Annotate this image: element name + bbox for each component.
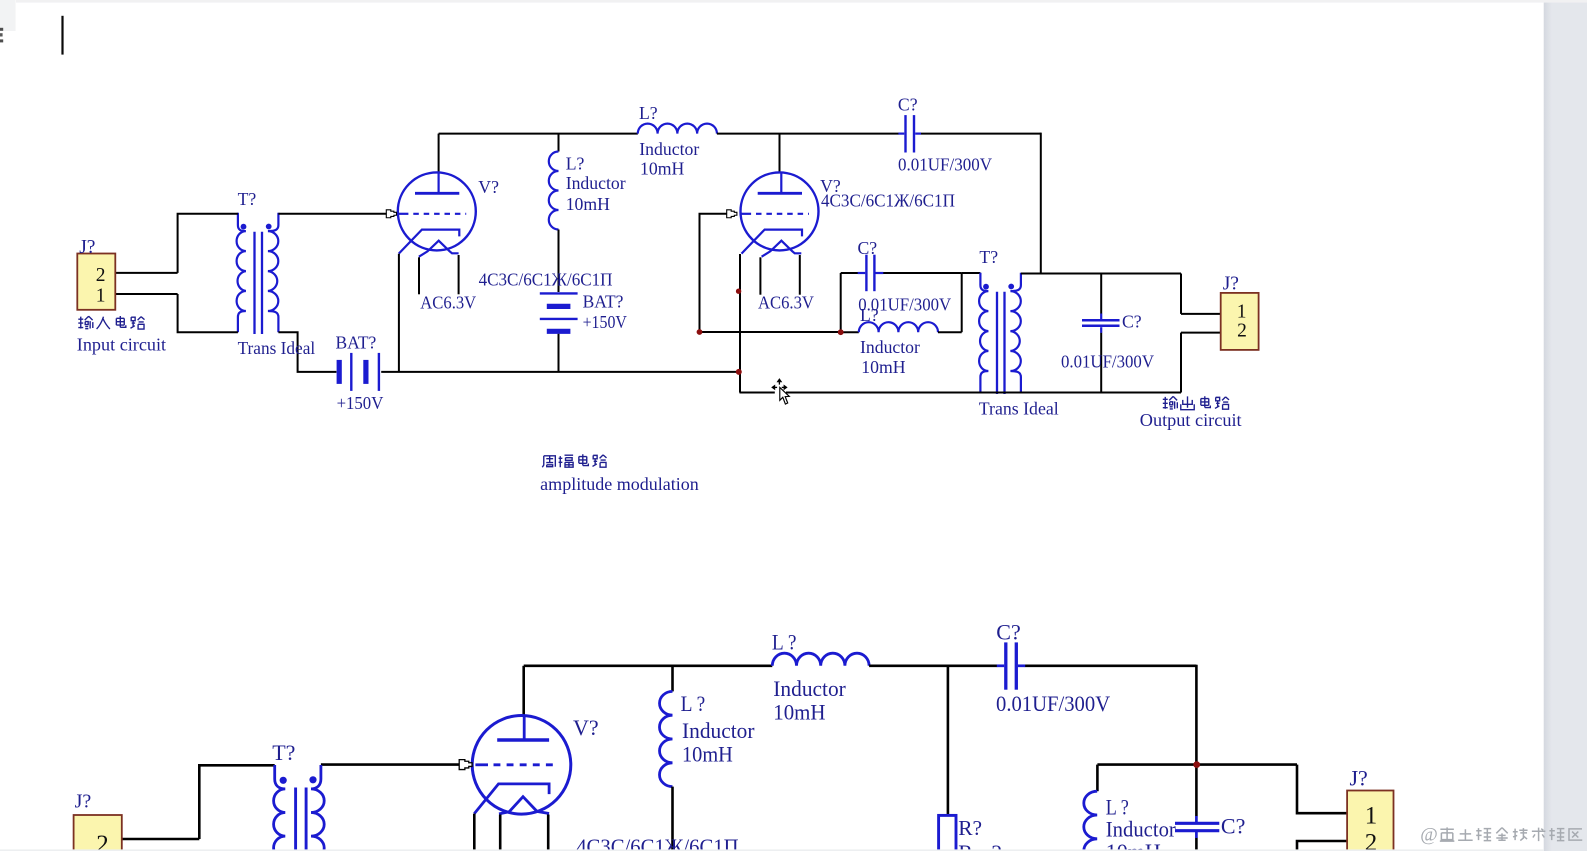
svg-text:J?: J? [1350, 766, 1368, 791]
svg-text:V?: V? [478, 177, 499, 197]
svg-text:Trans Ideal: Trans Ideal [238, 338, 316, 358]
svg-text:C?: C? [1122, 312, 1142, 332]
svg-text:V?: V? [573, 715, 599, 740]
svg-text:2: 2 [96, 831, 109, 851]
svg-text:10mH: 10mH [682, 741, 733, 766]
svg-text:10mH: 10mH [1106, 839, 1161, 851]
svg-text:J?: J? [75, 790, 92, 812]
svg-text:Inductor: Inductor [639, 139, 699, 159]
svg-text:Inductor: Inductor [860, 337, 920, 357]
svg-text:2: 2 [1365, 829, 1378, 851]
svg-text:L?: L? [566, 154, 585, 174]
svg-text:10mH: 10mH [566, 194, 610, 214]
svg-text:L ?: L ? [681, 691, 706, 716]
svg-text:Inductor: Inductor [1106, 817, 1177, 842]
svg-text:0.01UF/300V: 0.01UF/300V [1061, 352, 1154, 372]
svg-text:10mH: 10mH [861, 357, 905, 377]
svg-text:T?: T? [979, 247, 998, 267]
svg-text:10mH: 10mH [640, 159, 684, 179]
svg-text:0.01UF/300V: 0.01UF/300V [898, 154, 992, 174]
svg-text:R?: R? [958, 816, 982, 840]
svg-text:amplitude modulation: amplitude modulation [540, 474, 699, 494]
svg-text:4C3C/6C1Ж/6C1Π: 4C3C/6C1Ж/6C1Π [821, 191, 955, 211]
svg-text:L ?: L ? [772, 630, 797, 655]
svg-text:AC6.3V: AC6.3V [420, 293, 476, 313]
svg-text:T?: T? [238, 189, 257, 209]
svg-text:10mH: 10mH [773, 699, 825, 724]
svg-text:Input circuit: Input circuit [77, 335, 166, 355]
svg-text:C?: C? [858, 238, 878, 258]
svg-text:C?: C? [898, 94, 918, 114]
svg-text:L?: L? [860, 305, 879, 325]
svg-text:4C3C/6C1Ж/6C1Π: 4C3C/6C1Ж/6C1Π [576, 834, 738, 851]
svg-text:1: 1 [1237, 301, 1247, 322]
svg-text:+150V: +150V [583, 312, 628, 332]
svg-text:0.01UF/300V: 0.01UF/300V [996, 691, 1110, 716]
svg-text:C?: C? [996, 620, 1020, 645]
svg-text:BAT?: BAT? [336, 332, 377, 352]
svg-text:@: @ [1420, 825, 1438, 846]
svg-text:Trans Ideal: Trans Ideal [979, 399, 1059, 419]
svg-text:Output circuit: Output circuit [1140, 410, 1242, 430]
svg-text:2: 2 [1237, 320, 1247, 341]
svg-text:Res2: Res2 [958, 840, 1002, 851]
svg-text:L?: L? [639, 103, 658, 123]
svg-text:Inductor: Inductor [773, 676, 846, 701]
svg-text:+150V: +150V [337, 393, 384, 413]
svg-text:Inductor: Inductor [682, 718, 755, 743]
svg-text:J?: J? [79, 237, 95, 258]
svg-text:4C3C/6C1Ж/6C1Π: 4C3C/6C1Ж/6C1Π [479, 269, 613, 289]
svg-text:Inductor: Inductor [566, 173, 626, 193]
svg-text:T?: T? [272, 740, 295, 765]
svg-text:BAT?: BAT? [583, 291, 624, 311]
svg-text:1: 1 [1365, 802, 1378, 829]
svg-text:1: 1 [96, 286, 106, 307]
svg-text:C?: C? [1221, 814, 1245, 839]
svg-text:AC6.3V: AC6.3V [758, 293, 814, 313]
svg-text:J?: J? [1223, 273, 1239, 294]
svg-text:2: 2 [96, 265, 106, 286]
